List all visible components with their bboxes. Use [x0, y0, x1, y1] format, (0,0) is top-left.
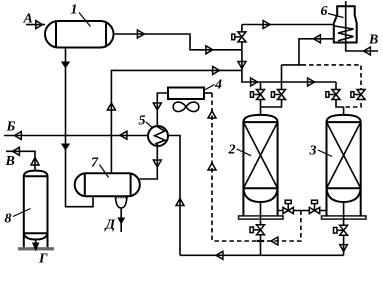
stream V-right arrow [364, 47, 371, 55]
svg-text:3: 3 [309, 144, 317, 159]
svg-text:1: 1 [71, 3, 78, 18]
dashed return junction dash [257, 240, 264, 242]
HX 5 coil [155, 127, 165, 146]
vessel 8 [24, 171, 48, 248]
column 3 support bar [322, 216, 367, 219]
stream G filled arrow [35, 240, 37, 244]
outlet arrow 2 [206, 46, 213, 54]
furnace 6 hot outlet line [299, 39, 334, 65]
heat exchanger 5 [148, 126, 168, 146]
svg-text:В: В [368, 33, 378, 48]
label 2 tick [237, 149, 251, 156]
vessel 8 support bar [18, 247, 54, 250]
dashed return left arrow [271, 237, 278, 245]
label 5 tick [146, 122, 153, 128]
stream D filled arrow [117, 218, 125, 225]
column 3 bottom stub [343, 202, 345, 255]
svg-text:Г: Г [38, 252, 48, 267]
vessel 1 seam right [105, 21, 107, 47]
drum 7 bottom neck [115, 196, 127, 232]
side valve R [309, 200, 319, 214]
HX 5 inlet line from cooler 4 [157, 93, 168, 126]
column 3 X packing [327, 122, 361, 188]
svg-text:В: В [5, 154, 15, 169]
line to furnace 6 [242, 24, 334, 26]
coil riser up arrow [176, 199, 184, 206]
dried gas bottom header [180, 254, 344, 256]
stream B line [4, 135, 148, 137]
vessel 8 stub up arrow [31, 158, 39, 166]
valve column 2 bottom [250, 225, 265, 235]
vessel 8 bottom seam [24, 232, 48, 234]
drum 7 [75, 173, 140, 196]
cooler 4 fan [173, 102, 199, 111]
furnace 6 serpentine [335, 26, 354, 41]
HX 5 inlet down arrow [153, 103, 161, 110]
furnace feed arrow [263, 21, 270, 29]
dashed riser up arrow top [208, 111, 216, 118]
valve A [250, 90, 264, 100]
HX 5 outlet down arrow [153, 160, 161, 167]
HX 5 outlet line to drum 7 [140, 146, 158, 179]
stream V-left line [6, 151, 35, 171]
label 4 tick [205, 85, 215, 91]
column 2 X packing [243, 122, 277, 188]
column 3 bottom seam [327, 187, 361, 189]
drum 7 neck dots [116, 197, 127, 199]
regeneration header dashed part [302, 65, 361, 107]
dashed riser up arrow lower [208, 163, 216, 170]
valve V1 on furnace branch [232, 32, 246, 42]
label 3 tick [318, 150, 332, 157]
column 2 bottom stub [260, 202, 262, 255]
header arrow 1 [251, 78, 258, 86]
label 8 tick [13, 209, 31, 217]
valve D [351, 90, 365, 100]
riser header right arrow [213, 66, 220, 74]
label 7 tick [100, 165, 109, 178]
svg-text:7: 7 [91, 156, 99, 171]
column 3 top stub [343, 107, 345, 115]
stream A inlet line [26, 24, 45, 26]
valve A stub and column 2 top stub [260, 82, 262, 115]
vessel 1 drain line [66, 48, 94, 207]
label 6 tick [328, 14, 344, 18]
valve C stub and leg [336, 82, 344, 107]
stream A arrow [36, 21, 43, 29]
stream V-left arrow [13, 147, 20, 155]
valve C [326, 90, 340, 100]
column 2 support bar [239, 216, 284, 219]
vessel 1 seam left [55, 21, 57, 47]
valve B [271, 90, 285, 100]
column 2 top seam [243, 121, 277, 123]
valve column 3 bottom [334, 225, 348, 235]
svg-text:2: 2 [228, 143, 236, 158]
HX 5 coil line to bottom header [168, 136, 180, 256]
drum 7 seam right [130, 174, 132, 197]
furnace 6 flue tube [346, 1, 378, 51]
junction down arrow [238, 62, 246, 69]
side valve L [283, 200, 293, 214]
stream B arrow mid [120, 131, 127, 139]
column 3 top seam [327, 121, 361, 123]
drum 7 seam left [84, 174, 86, 197]
vessel 8 top seam [24, 175, 48, 177]
column 3 bottom down arrow [340, 245, 348, 252]
feed junction vertical and header [242, 25, 336, 83]
header arrow 2 [308, 78, 315, 86]
svg-text:5: 5 [139, 114, 146, 129]
svg-text:6: 6 [321, 4, 328, 19]
air cooler 4 [168, 88, 204, 100]
vessel 8 dished bottom [24, 233, 48, 239]
drain filled arrow lower [61, 144, 70, 151]
drum 7 riser line to feed header [111, 70, 242, 173]
column 3 dished bottom [327, 188, 361, 202]
svg-text:Д: Д [104, 218, 116, 233]
cooler 4 right stub [204, 92, 212, 94]
side regeneration outlet line [278, 210, 327, 212]
svg-text:Б: Б [6, 120, 16, 135]
adsorber column 3 body [327, 115, 361, 216]
regeneration header solid part [282, 64, 302, 66]
regeneration return dashed riser [211, 93, 213, 241]
svg-text:8: 8 [5, 212, 12, 227]
label 1 tick [79, 13, 91, 27]
column 2 dished bottom [243, 188, 277, 202]
furnace 6 body [334, 6, 357, 42]
riser up arrow [107, 103, 115, 110]
adsorber column 2 body [243, 115, 277, 216]
stream B arrow at exit [14, 132, 21, 140]
bottom header left arrow [216, 251, 223, 259]
hot outlet left arrow [314, 35, 321, 43]
vessel 1 outlet line [114, 34, 242, 50]
svg-text:4: 4 [214, 78, 222, 93]
drain filled arrow top [61, 62, 70, 69]
vessel 1 [45, 21, 114, 48]
column 2 bottom seam [243, 187, 277, 189]
outlet arrow 1 [137, 30, 144, 38]
dashed return drop [212, 211, 301, 242]
valve B riser and leg [261, 65, 282, 107]
